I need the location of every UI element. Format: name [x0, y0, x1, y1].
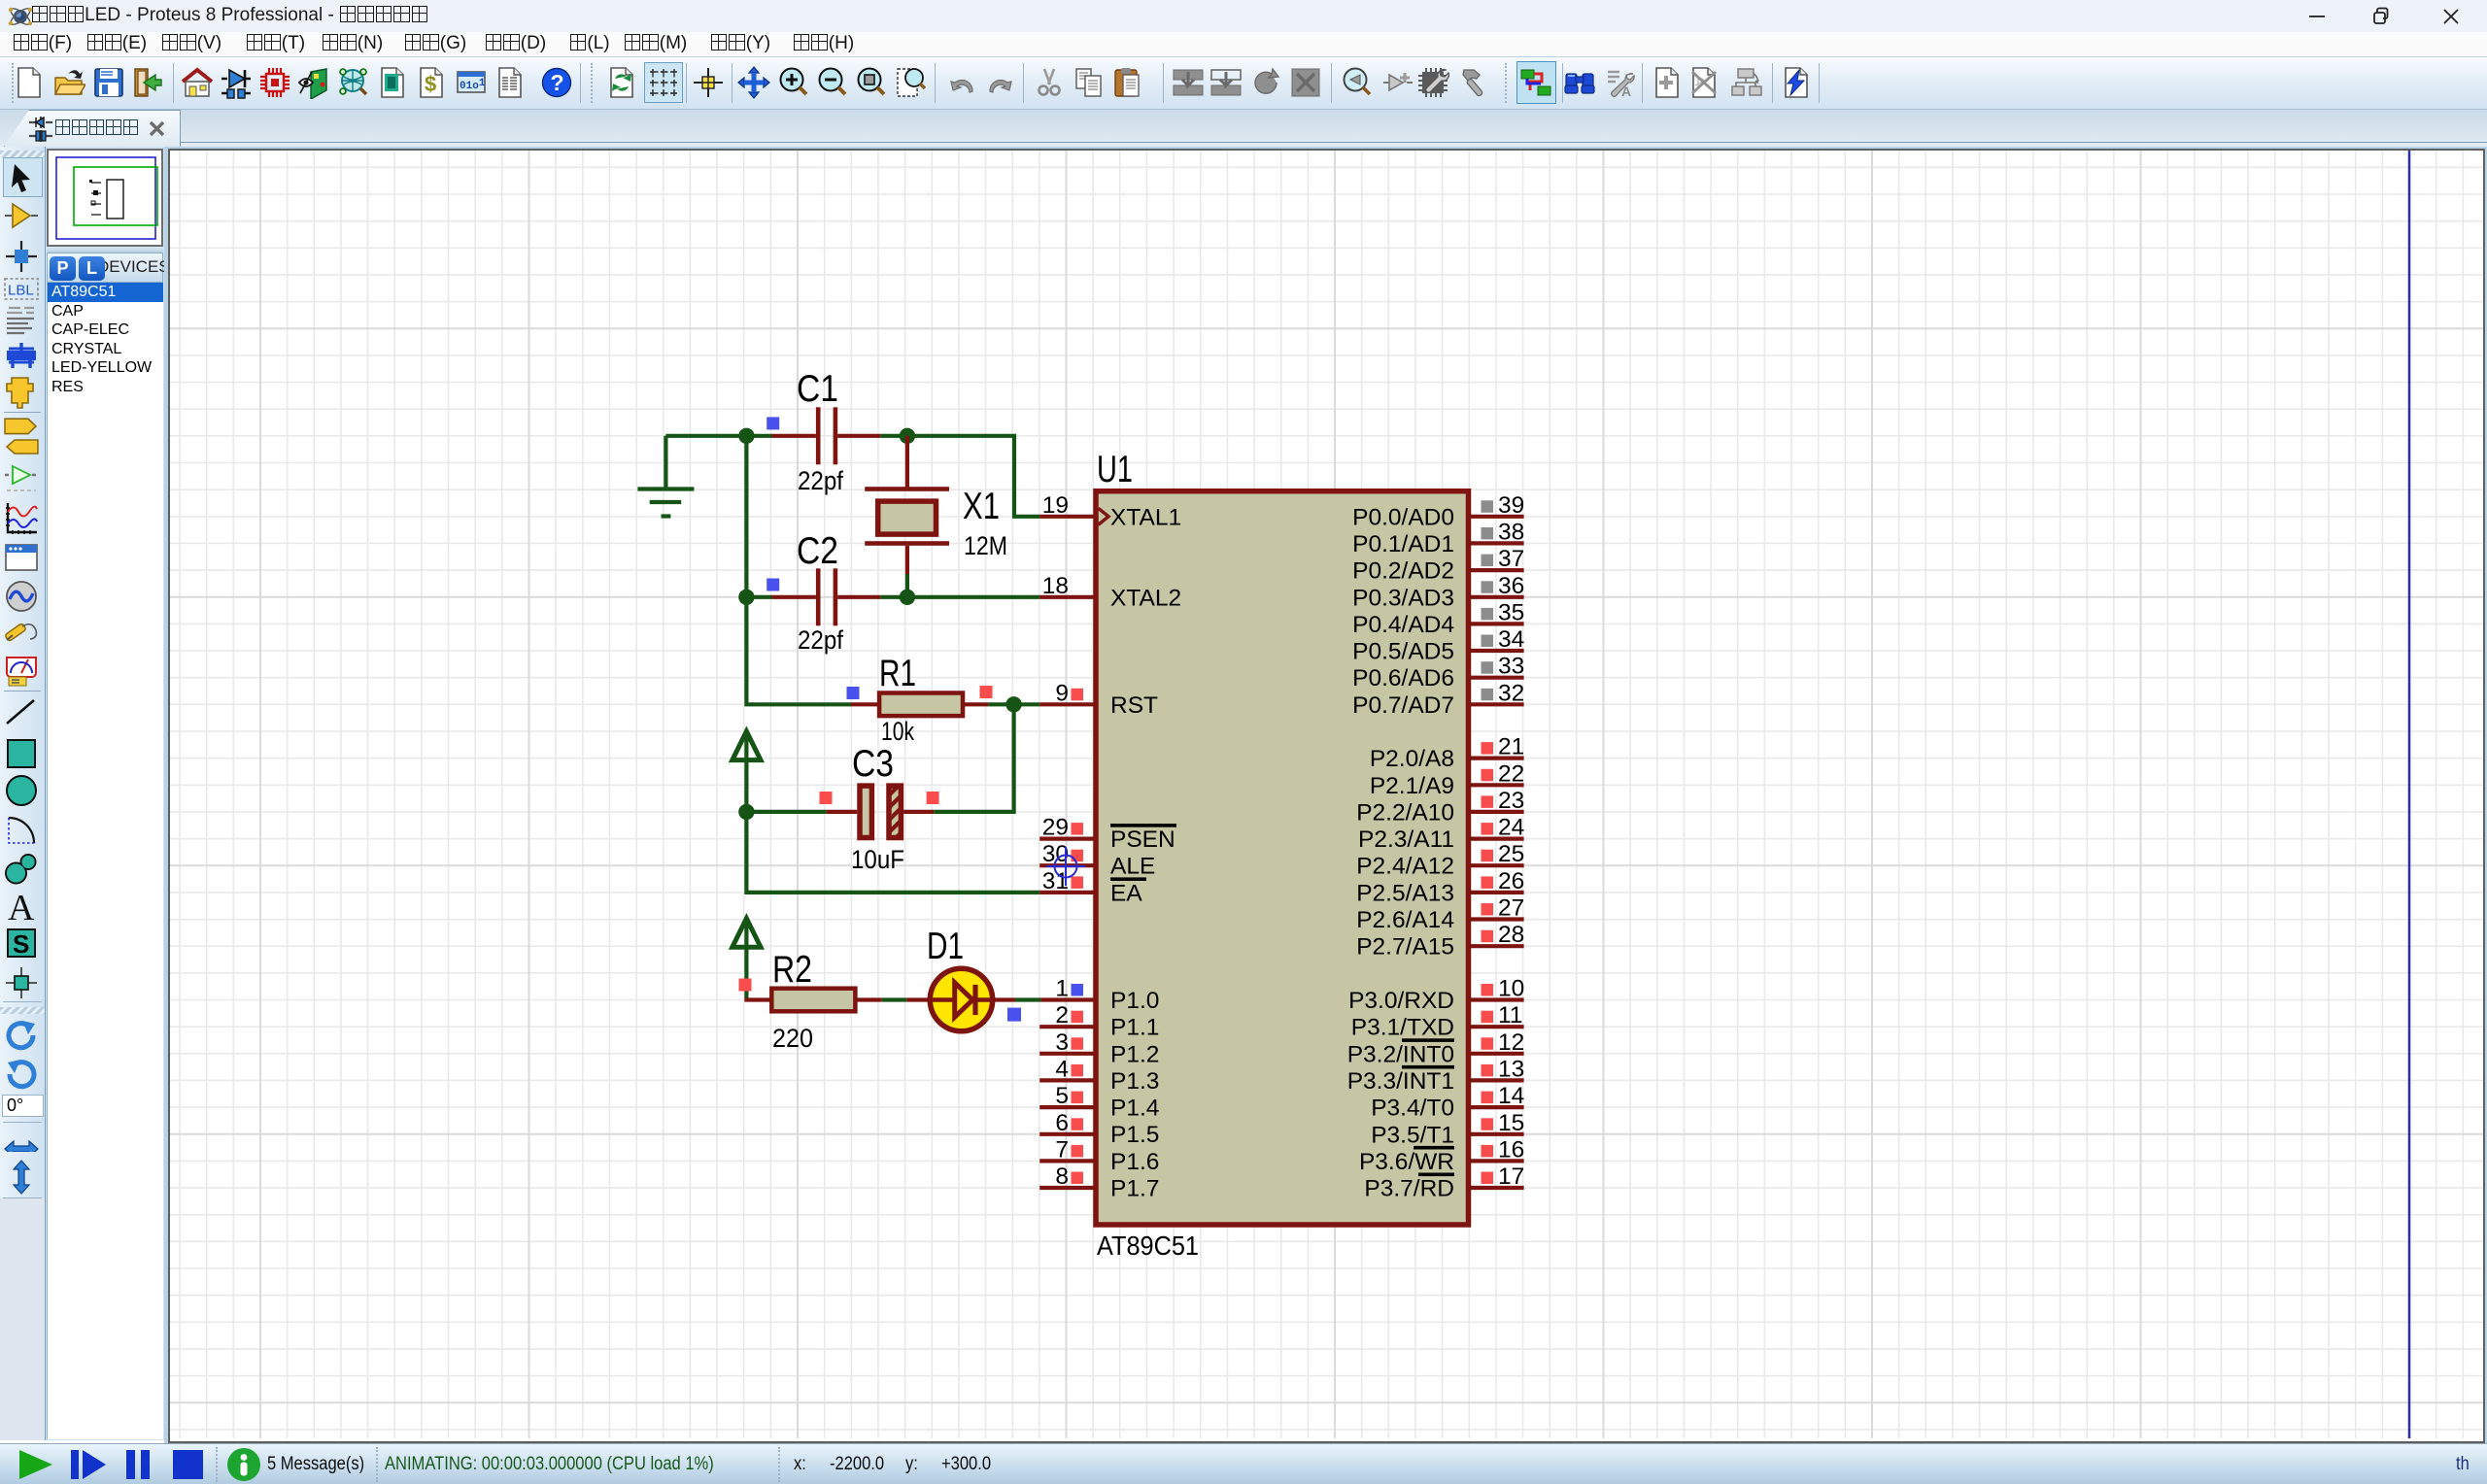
pin 15 stub: [1471, 1132, 1524, 1136]
pin 17 stub: [1471, 1186, 1524, 1190]
svg-text:P2.1/A9: P2.1/A9: [1370, 773, 1454, 799]
sheet border line: [2408, 151, 2411, 1438]
svg-text:?: ?: [551, 70, 564, 95]
svg-text:P2.0/A8: P2.0/A8: [1370, 746, 1454, 772]
pin 35 stub: [1471, 622, 1524, 625]
svg-text:37: 37: [1498, 546, 1524, 572]
svg-text:7: 7: [1055, 1136, 1069, 1163]
svg-text:19: 19: [1042, 492, 1069, 519]
wire C1 left stub: [746, 434, 771, 438]
resistor R1: [851, 702, 879, 706]
capacitor C1: [816, 407, 821, 464]
R2 pin state square: [739, 979, 752, 992]
svg-text:11: 11: [1498, 1002, 1522, 1029]
node C1-gnd junction: [738, 428, 754, 444]
svg-text:9: 9: [1055, 680, 1069, 706]
svg-text:XTAL2: XTAL2: [1110, 585, 1181, 611]
pin 29 stub: [1039, 836, 1093, 840]
svg-text:P0.0/AD0: P0.0/AD0: [1352, 504, 1454, 530]
svg-text:X1: X1: [963, 486, 1000, 527]
pin 32 stub: [1471, 702, 1524, 706]
C3 left pin state square: [820, 792, 833, 804]
power terminal (VCC) above C3: [732, 731, 761, 760]
resistor R2: [744, 997, 771, 1001]
R1 right pin state square: [980, 686, 993, 698]
svg-text:R1: R1: [879, 653, 916, 694]
svg-text:P3.4/T0: P3.4/T0: [1371, 1096, 1454, 1122]
clock caret XTAL1: [1099, 508, 1109, 524]
crystal X1: [905, 436, 909, 489]
svg-text:P3.5/T1: P3.5/T1: [1371, 1122, 1454, 1148]
wire R1 to RST: [988, 702, 1039, 706]
wire D1 to P1.0 pin 1: [993, 997, 1016, 1001]
svg-text:34: 34: [1498, 626, 1524, 653]
pin 14 stub: [1471, 1105, 1524, 1109]
svg-text:P1.7: P1.7: [1110, 1176, 1159, 1202]
svg-text:5: 5: [1055, 1083, 1069, 1109]
wire C3 right up to RST node: [934, 704, 1014, 812]
svg-text:15: 15: [1498, 1110, 1524, 1136]
op-amp U1 AT89C51 chip body: [1096, 491, 1469, 1225]
svg-text:P2.2/A10: P2.2/A10: [1356, 799, 1454, 826]
svg-text:P3.6/WR: P3.6/WR: [1359, 1149, 1454, 1175]
svg-text:10k: 10k: [881, 717, 914, 746]
svg-text:P2.5/A13: P2.5/A13: [1356, 880, 1454, 906]
svg-text:P0.7/AD7: P0.7/AD7: [1352, 692, 1454, 719]
svg-text:C2: C2: [797, 530, 838, 572]
pin 2 stub: [1039, 1025, 1093, 1029]
svg-text:P0.3/AD3: P0.3/AD3: [1352, 585, 1454, 611]
pin 27 stub: [1471, 917, 1524, 921]
svg-text:P1.5: P1.5: [1110, 1122, 1159, 1148]
svg-text:P1.6: P1.6: [1110, 1149, 1159, 1175]
svg-text:P3.2/INT0: P3.2/INT0: [1347, 1041, 1454, 1067]
pin 7 stub: [1039, 1159, 1093, 1163]
C1 pin state square: [767, 417, 779, 429]
svg-text:P1.1: P1.1: [1110, 1015, 1159, 1041]
pin 16 stub: [1471, 1159, 1524, 1163]
svg-text:27: 27: [1498, 895, 1524, 922]
pin 39 stub: [1471, 515, 1524, 519]
svg-text:36: 36: [1498, 573, 1524, 599]
cursor crosshair: [1046, 847, 1085, 886]
svg-text:3: 3: [1055, 1029, 1069, 1056]
svg-text:14: 14: [1498, 1083, 1524, 1109]
svg-text:ALE: ALE: [1110, 854, 1155, 880]
pin 6 stub: [1039, 1132, 1093, 1136]
svg-text:33: 33: [1498, 654, 1524, 680]
svg-text:8: 8: [1055, 1164, 1069, 1190]
svg-text:P2.4/A12: P2.4/A12: [1356, 854, 1454, 880]
pin 33 stub: [1471, 676, 1524, 680]
svg-text:4: 4: [1055, 1056, 1069, 1082]
pin 26 stub: [1471, 891, 1524, 894]
C2 pin state square: [767, 579, 779, 591]
node C1-X1 junction: [900, 428, 915, 444]
pin 30 stub: [1039, 863, 1093, 867]
wire C2 node down to R1 row: [746, 597, 851, 705]
svg-text:25: 25: [1498, 841, 1524, 867]
capacitor C2: [816, 568, 821, 625]
svg-text:P0.4/AD4: P0.4/AD4: [1352, 612, 1454, 638]
capacitor C3 (electrolytic): [746, 810, 826, 814]
svg-text:XTAL1: XTAL1: [1110, 504, 1181, 530]
svg-text:D1: D1: [927, 926, 964, 967]
svg-text:24: 24: [1498, 815, 1524, 841]
svg-text:22pf: 22pf: [798, 466, 843, 495]
svg-text:12: 12: [1498, 1029, 1524, 1056]
svg-text:A: A: [1621, 84, 1631, 99]
wire gnd to C1 node: [665, 434, 746, 438]
svg-text:P1.3: P1.3: [1110, 1068, 1159, 1095]
svg-text:P3.3/INT1: P3.3/INT1: [1347, 1068, 1454, 1095]
wire C2 right to XTAL2: [837, 595, 880, 599]
D1 pin state square: [1007, 1008, 1021, 1022]
svg-text:P2.6/A14: P2.6/A14: [1356, 907, 1454, 933]
svg-text:P1.0: P1.0: [1110, 988, 1159, 1014]
pin 28 stub: [1471, 944, 1524, 948]
svg-text:35: 35: [1498, 599, 1524, 625]
svg-text:23: 23: [1498, 788, 1524, 814]
wire C1 right to XTAL1: [837, 434, 880, 438]
pin 5 stub: [1039, 1105, 1093, 1109]
svg-text:LBL: LBL: [8, 283, 34, 299]
svg-text:13: 13: [1498, 1056, 1524, 1082]
svg-text:P3.7/RD: P3.7/RD: [1364, 1176, 1454, 1202]
pin 34 stub: [1471, 649, 1524, 653]
svg-text:10uF: 10uF: [851, 845, 904, 874]
svg-text:12M: 12M: [964, 531, 1007, 560]
svg-text:P0.5/AD5: P0.5/AD5: [1352, 639, 1454, 665]
pin 24 stub: [1471, 836, 1524, 840]
svg-text:RST: RST: [1110, 692, 1158, 719]
svg-text:C1: C1: [797, 368, 838, 410]
svg-text:1: 1: [1055, 976, 1069, 1002]
svg-text:P1.2: P1.2: [1110, 1041, 1159, 1067]
svg-text:39: 39: [1498, 492, 1524, 519]
pin 11 stub: [1471, 1025, 1524, 1029]
wire C3 node down to EA pin 31: [746, 812, 1039, 893]
ground: [664, 436, 667, 489]
node RST junction: [1005, 696, 1021, 712]
node C3 junction: [738, 804, 754, 820]
svg-text:10: 10: [1498, 976, 1524, 1002]
svg-text:P3.0/RXD: P3.0/RXD: [1348, 988, 1454, 1014]
pin 22 stub: [1471, 783, 1524, 787]
svg-text:U1: U1: [1097, 449, 1133, 490]
pin 23 stub: [1471, 810, 1524, 814]
wire C1 node down to C2 node: [744, 436, 748, 597]
pin 36 stub: [1471, 595, 1524, 599]
svg-text:EA: EA: [1110, 880, 1142, 906]
svg-text:P2.3/A11: P2.3/A11: [1358, 826, 1454, 853]
pin 10 stub: [1471, 997, 1524, 1001]
svg-text:32: 32: [1498, 680, 1524, 706]
svg-text:P0.2/AD2: P0.2/AD2: [1352, 558, 1454, 585]
svg-text:A: A: [8, 888, 35, 925]
svg-text:26: 26: [1498, 868, 1524, 894]
pin 8 stub: [1039, 1186, 1093, 1190]
svg-text:16: 16: [1498, 1136, 1524, 1163]
pin 4 stub: [1039, 1078, 1093, 1082]
svg-text:S: S: [13, 929, 29, 959]
pin 3 stub: [1039, 1052, 1093, 1056]
pin 12 stub: [1471, 1052, 1524, 1056]
svg-text:$: $: [425, 72, 436, 96]
svg-text:P0.1/AD1: P0.1/AD1: [1352, 531, 1454, 557]
svg-text:220: 220: [772, 1024, 813, 1053]
pin 13 stub: [1471, 1078, 1524, 1082]
svg-text:P2.7/A15: P2.7/A15: [1356, 934, 1454, 961]
svg-text:28: 28: [1498, 922, 1524, 948]
LED D1: [930, 968, 992, 1030]
svg-text:21: 21: [1498, 734, 1524, 760]
wire R2 to D1: [882, 997, 907, 1001]
node C2 left junction: [738, 590, 754, 605]
pin 25 stub: [1471, 863, 1524, 867]
svg-text:PSEN: PSEN: [1110, 826, 1175, 853]
svg-text:AT89C51: AT89C51: [1097, 1231, 1199, 1261]
wire C2 left stub: [746, 595, 771, 599]
power terminal (VCC) above R2: [732, 919, 761, 948]
pin 38 stub: [1471, 541, 1524, 545]
R1 left pin state square: [847, 687, 860, 699]
svg-text:C3: C3: [852, 743, 894, 785]
C3 right pin state square: [927, 792, 939, 804]
pin 37 stub: [1471, 568, 1524, 572]
svg-text:P1.4: P1.4: [1110, 1096, 1159, 1122]
svg-text:6: 6: [1055, 1110, 1069, 1136]
svg-text:22: 22: [1498, 760, 1524, 787]
svg-text:22pf: 22pf: [798, 625, 843, 655]
svg-text:18: 18: [1042, 573, 1069, 599]
svg-text:38: 38: [1498, 519, 1524, 545]
svg-text:R2: R2: [772, 949, 812, 991]
svg-text:2: 2: [1055, 1002, 1069, 1029]
svg-text:P0.6/AD6: P0.6/AD6: [1352, 665, 1454, 691]
pin 21 stub: [1471, 756, 1524, 759]
svg-text:17: 17: [1498, 1164, 1524, 1190]
node X1-C2 junction: [900, 590, 915, 605]
svg-text:P3.1/TXD: P3.1/TXD: [1351, 1015, 1454, 1041]
svg-text:29: 29: [1042, 815, 1069, 841]
